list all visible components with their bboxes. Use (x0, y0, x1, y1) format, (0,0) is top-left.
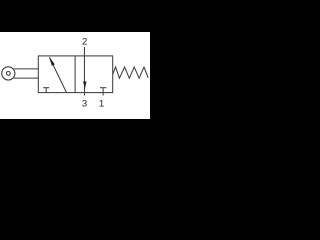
svg-text:1: 1 (99, 99, 104, 110)
svg-text:3: 3 (82, 99, 87, 110)
svg-text:2: 2 (82, 37, 87, 48)
